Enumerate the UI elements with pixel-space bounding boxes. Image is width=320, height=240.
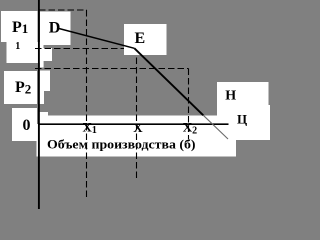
svg-text:H: H (225, 89, 236, 104)
svg-text:Объем производства (б): Объем производства (б) (47, 137, 196, 152)
svg-text:D: D (49, 20, 61, 37)
svg-text:P2: P2 (15, 79, 31, 96)
svg-text:0: 0 (23, 117, 31, 134)
dashed quantity line X1 (86, 10, 88, 199)
label box E background (124, 24, 167, 55)
dashed quantity line X (136, 48, 138, 178)
label box H background (217, 82, 269, 116)
dashed price line P1 level (39, 9, 87, 11)
dashed price line E level (35, 48, 136, 50)
label box P2 background (4, 71, 37, 104)
svg-text:E: E (135, 30, 146, 47)
svg-text:X: X (133, 120, 143, 135)
dashed quantity line X2 (188, 69, 190, 140)
svg-text:Ц: Ц (237, 112, 247, 127)
demand curve upper segment D to E (57, 28, 134, 48)
demand curve tail below axis (thin gray) (203, 115, 228, 139)
label box Q background (221, 105, 270, 140)
svg-text:P1: P1 (12, 19, 28, 36)
label box P1 background (1, 11, 38, 42)
axis caption box background (40, 116, 236, 125)
demand curve lower segment E to axis (134, 48, 203, 115)
svg-text:1: 1 (15, 41, 20, 52)
dashed price line P2 level (35, 68, 189, 70)
label box 0 background (12, 108, 37, 141)
y axis (price) (38, 0, 40, 209)
label box P1 second line background (7, 42, 44, 63)
x axis (quantity) (40, 123, 229, 125)
label box D background (40, 12, 71, 46)
